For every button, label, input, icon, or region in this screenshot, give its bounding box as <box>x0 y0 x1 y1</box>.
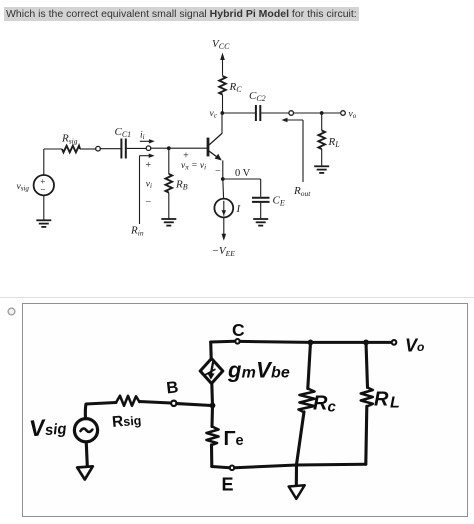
resistor Rc <box>299 389 315 413</box>
node base/RB <box>167 146 171 150</box>
svg-text:Γe: Γe <box>224 428 244 450</box>
node vc <box>220 111 224 115</box>
wire emitter node to source <box>222 179 225 199</box>
wire RB <box>168 148 170 174</box>
wire diamond to top rail <box>209 342 213 359</box>
svg-text:Rsig: Rsig <box>111 411 142 430</box>
wire terminal to CC1 <box>100 148 121 150</box>
capacitor CC1 <box>120 139 122 159</box>
terminal B open circle <box>171 401 176 406</box>
dependent source gmVbe diamond <box>200 359 223 384</box>
bottom rail E wire <box>212 464 366 468</box>
svg-text:E: E <box>222 475 234 495</box>
wire emitter to CE <box>223 178 261 180</box>
wire Vsig to Rsig <box>85 403 116 419</box>
wire top rail to Rc <box>308 342 311 388</box>
svg-text:RL: RL <box>374 389 400 412</box>
wire RL to ground <box>321 149 323 166</box>
svg-text:gmVbe: gmVbe <box>227 358 290 383</box>
wire terminal to vo <box>294 112 341 114</box>
wire B to node <box>177 404 212 406</box>
svg-text:Vo: Vo <box>405 336 424 356</box>
Rout arrow <box>302 120 304 182</box>
current source I <box>214 199 233 218</box>
wire RC to node vc <box>222 95 224 114</box>
ground arrow under Vsig <box>86 444 87 467</box>
wire RL to bottom rail <box>366 406 367 464</box>
wire source to VEE arrow <box>223 217 225 235</box>
resistor RC <box>219 76 226 95</box>
resistor RL <box>361 388 373 407</box>
resistor RB <box>166 174 173 193</box>
capacitor CC2 <box>255 105 257 121</box>
ground under CE <box>253 219 268 226</box>
top rail C wire <box>211 341 392 342</box>
terminal open circle <box>289 111 294 116</box>
terminal Vo open circle <box>392 340 397 345</box>
node under diamond <box>210 403 216 409</box>
wire RB to ground <box>168 193 170 219</box>
wire RL <box>321 113 323 131</box>
question text bar <box>4 7 359 21</box>
wire CE to ground <box>260 202 262 219</box>
node C small circle <box>235 339 240 344</box>
svg-text:Rc: Rc <box>313 393 336 416</box>
node top of RL <box>363 340 369 346</box>
resistor Rsig <box>116 396 140 406</box>
Rin arrow <box>139 156 141 224</box>
wire to base node <box>151 147 207 149</box>
wire vsig to ground <box>43 195 45 220</box>
svg-text:C: C <box>232 320 245 340</box>
terminal open circle after Rsig <box>96 146 101 151</box>
svg-text:B: B <box>166 378 180 397</box>
answer radio button <box>2 302 22 322</box>
wire Rc to bottom rail <box>297 412 305 465</box>
terminal vo open circle <box>341 111 346 116</box>
emitter wire down <box>222 160 224 179</box>
horizontal divider <box>0 297 474 298</box>
wire to Rsig <box>44 148 62 150</box>
node E small circle <box>230 466 235 471</box>
wire CC2 to terminal <box>260 112 289 114</box>
source vsig <box>34 175 54 195</box>
resistor RL <box>318 131 325 150</box>
transistor Q1 <box>207 138 210 157</box>
source Vsig circle <box>74 419 97 442</box>
wire diamond to node <box>210 384 214 406</box>
printed circuit schematic <box>0 0 474 300</box>
resistor re <box>207 427 219 446</box>
answer image box <box>22 303 468 517</box>
wire re to bottom rail <box>210 445 213 467</box>
wire CC1 to terminal 2 <box>126 147 146 149</box>
ground under RL <box>314 166 329 173</box>
wire VCC arrow <box>222 58 224 76</box>
wire Rsig to terminal <box>80 148 96 150</box>
ground arrow bottom <box>295 465 298 489</box>
wire vc to CC2 <box>223 112 256 114</box>
ground under vsig <box>36 220 51 227</box>
wire vsig up <box>43 149 45 175</box>
resistor Rsig <box>62 146 80 153</box>
node top of Rc <box>308 340 314 346</box>
wire node to re <box>210 406 214 427</box>
ground under RB <box>161 219 176 226</box>
wire Rsig to B <box>140 402 171 404</box>
node at RL top <box>320 111 324 115</box>
terminal open circle at base input <box>146 146 151 151</box>
node emitter <box>221 177 225 181</box>
svg-text:Vsig: Vsig <box>28 412 67 441</box>
capacitor CE <box>252 197 270 199</box>
wire top rail to RL <box>366 342 368 387</box>
